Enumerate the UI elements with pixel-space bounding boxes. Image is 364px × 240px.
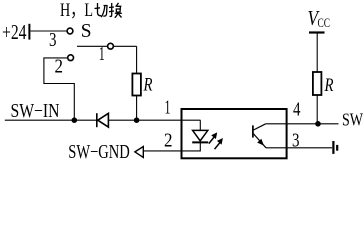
svg-text:R: R <box>143 76 153 96</box>
SW-GND open arrow <box>135 147 143 158</box>
glyph 换 <box>109 3 122 18</box>
diode D1 triangle <box>98 113 109 127</box>
switch contact 2 circle <box>68 55 74 61</box>
wire resistor to node C <box>316 95 318 124</box>
LED emission arrow 2 <box>215 138 223 149</box>
VCC terminal tick <box>309 31 325 33</box>
LED triangle (anode) <box>193 130 208 140</box>
ground symbol bar 2 <box>336 145 338 151</box>
switch blade / wire contact 1 <box>77 45 137 47</box>
svg-text:2: 2 <box>164 129 173 151</box>
svg-text:3: 3 <box>49 29 57 51</box>
+24 terminal tick <box>28 24 30 40</box>
title H, L切换 <box>60 0 122 21</box>
resistor R (right) <box>313 72 322 95</box>
wire SW-IN main <box>5 119 96 121</box>
ground symbol bar 1 <box>332 141 334 154</box>
phototransistor collector diagonal <box>254 124 266 130</box>
phototransistor emitter arrowhead <box>257 139 264 146</box>
svg-text:SW−IN: SW−IN <box>11 101 60 122</box>
svg-text:H，L: H，L <box>60 0 93 21</box>
svg-text:2: 2 <box>55 56 64 78</box>
VCC label <box>308 6 331 30</box>
wire VCC to resistor <box>316 34 318 73</box>
phototransistor emitter diagonal <box>254 134 267 148</box>
wire diode to optocoupler pin 1 <box>108 119 200 121</box>
junction dot node A <box>72 117 78 123</box>
svg-text:R: R <box>324 76 334 96</box>
wire contact 2 to SW-IN node <box>44 58 74 120</box>
glyph 切 <box>95 3 108 17</box>
svg-text:SW: SW <box>342 110 363 130</box>
phototransistor Q1 base bar <box>252 125 254 137</box>
diode D1 cathode bar <box>96 113 98 127</box>
wire +24 to switch common <box>30 30 66 32</box>
LED emission arrow 1 <box>209 132 217 143</box>
optocoupler U1 box <box>182 109 287 158</box>
junction dot node C <box>315 121 321 127</box>
svg-text:+24: +24 <box>2 20 27 44</box>
svg-text:CC: CC <box>318 16 331 30</box>
switch S common contact circle <box>67 28 73 34</box>
svg-text:S: S <box>81 20 92 42</box>
svg-text:4: 4 <box>293 99 301 121</box>
wire contact1 corner down to resistor <box>136 46 138 73</box>
svg-text:1: 1 <box>99 43 105 65</box>
wire pin4 collector to SW node <box>266 123 339 125</box>
wire pin3 emitter to ground <box>266 147 332 149</box>
svg-text:SW−GND: SW−GND <box>68 142 130 163</box>
junction dot node B <box>134 117 140 123</box>
switch contact 1 circle <box>108 43 114 49</box>
wire LED cathode to pin 2 <box>143 142 200 151</box>
resistor R (left) <box>132 74 141 96</box>
svg-text:1: 1 <box>165 96 171 118</box>
wire pin1 down to LED <box>199 120 201 130</box>
wire resistor to node B <box>136 96 138 121</box>
LED cathode bar <box>192 141 208 143</box>
